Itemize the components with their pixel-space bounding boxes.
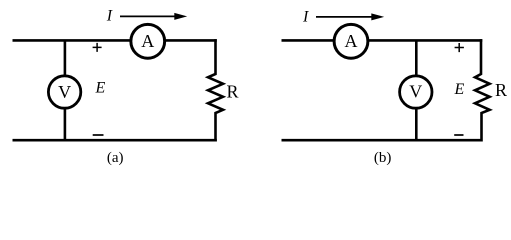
svg-text:R: R bbox=[227, 81, 239, 101]
svg-text:A: A bbox=[141, 31, 154, 51]
current arrow (b) bbox=[316, 13, 384, 20]
current arrow (a) bbox=[120, 13, 187, 20]
wire voltmeter branch (a) bbox=[64, 40, 67, 140]
svg-text:E: E bbox=[454, 81, 465, 98]
svg-text:R: R bbox=[495, 80, 507, 100]
wire voltmeter branch (b) bbox=[415, 40, 418, 140]
svg-text:(b): (b) bbox=[374, 150, 392, 166]
wire bottom rail (b) bbox=[282, 139, 483, 142]
svg-text:E: E bbox=[95, 80, 106, 97]
polarity minus (b) bbox=[454, 134, 463, 136]
svg-text:I: I bbox=[302, 9, 309, 26]
resistor R2 (b) bbox=[475, 39, 490, 141]
wire top rail (b) bbox=[282, 39, 483, 42]
voltmeter V (b) bbox=[400, 76, 432, 108]
polarity plus (b) bbox=[455, 43, 464, 52]
resistor R1 (a) bbox=[208, 39, 223, 141]
wire top rail (a) bbox=[13, 39, 217, 42]
svg-text:V: V bbox=[409, 82, 422, 102]
svg-text:A: A bbox=[345, 31, 358, 51]
voltmeter V (a) bbox=[48, 76, 80, 108]
wire bottom rail (a) bbox=[13, 139, 217, 142]
polarity plus (a) bbox=[93, 43, 102, 52]
polarity minus (a) bbox=[93, 134, 104, 136]
svg-text:(a): (a) bbox=[107, 150, 124, 166]
svg-text:I: I bbox=[106, 8, 113, 25]
svg-text:V: V bbox=[58, 82, 71, 102]
ammeter A (b) bbox=[334, 24, 368, 58]
ammeter A (a) bbox=[131, 24, 165, 58]
